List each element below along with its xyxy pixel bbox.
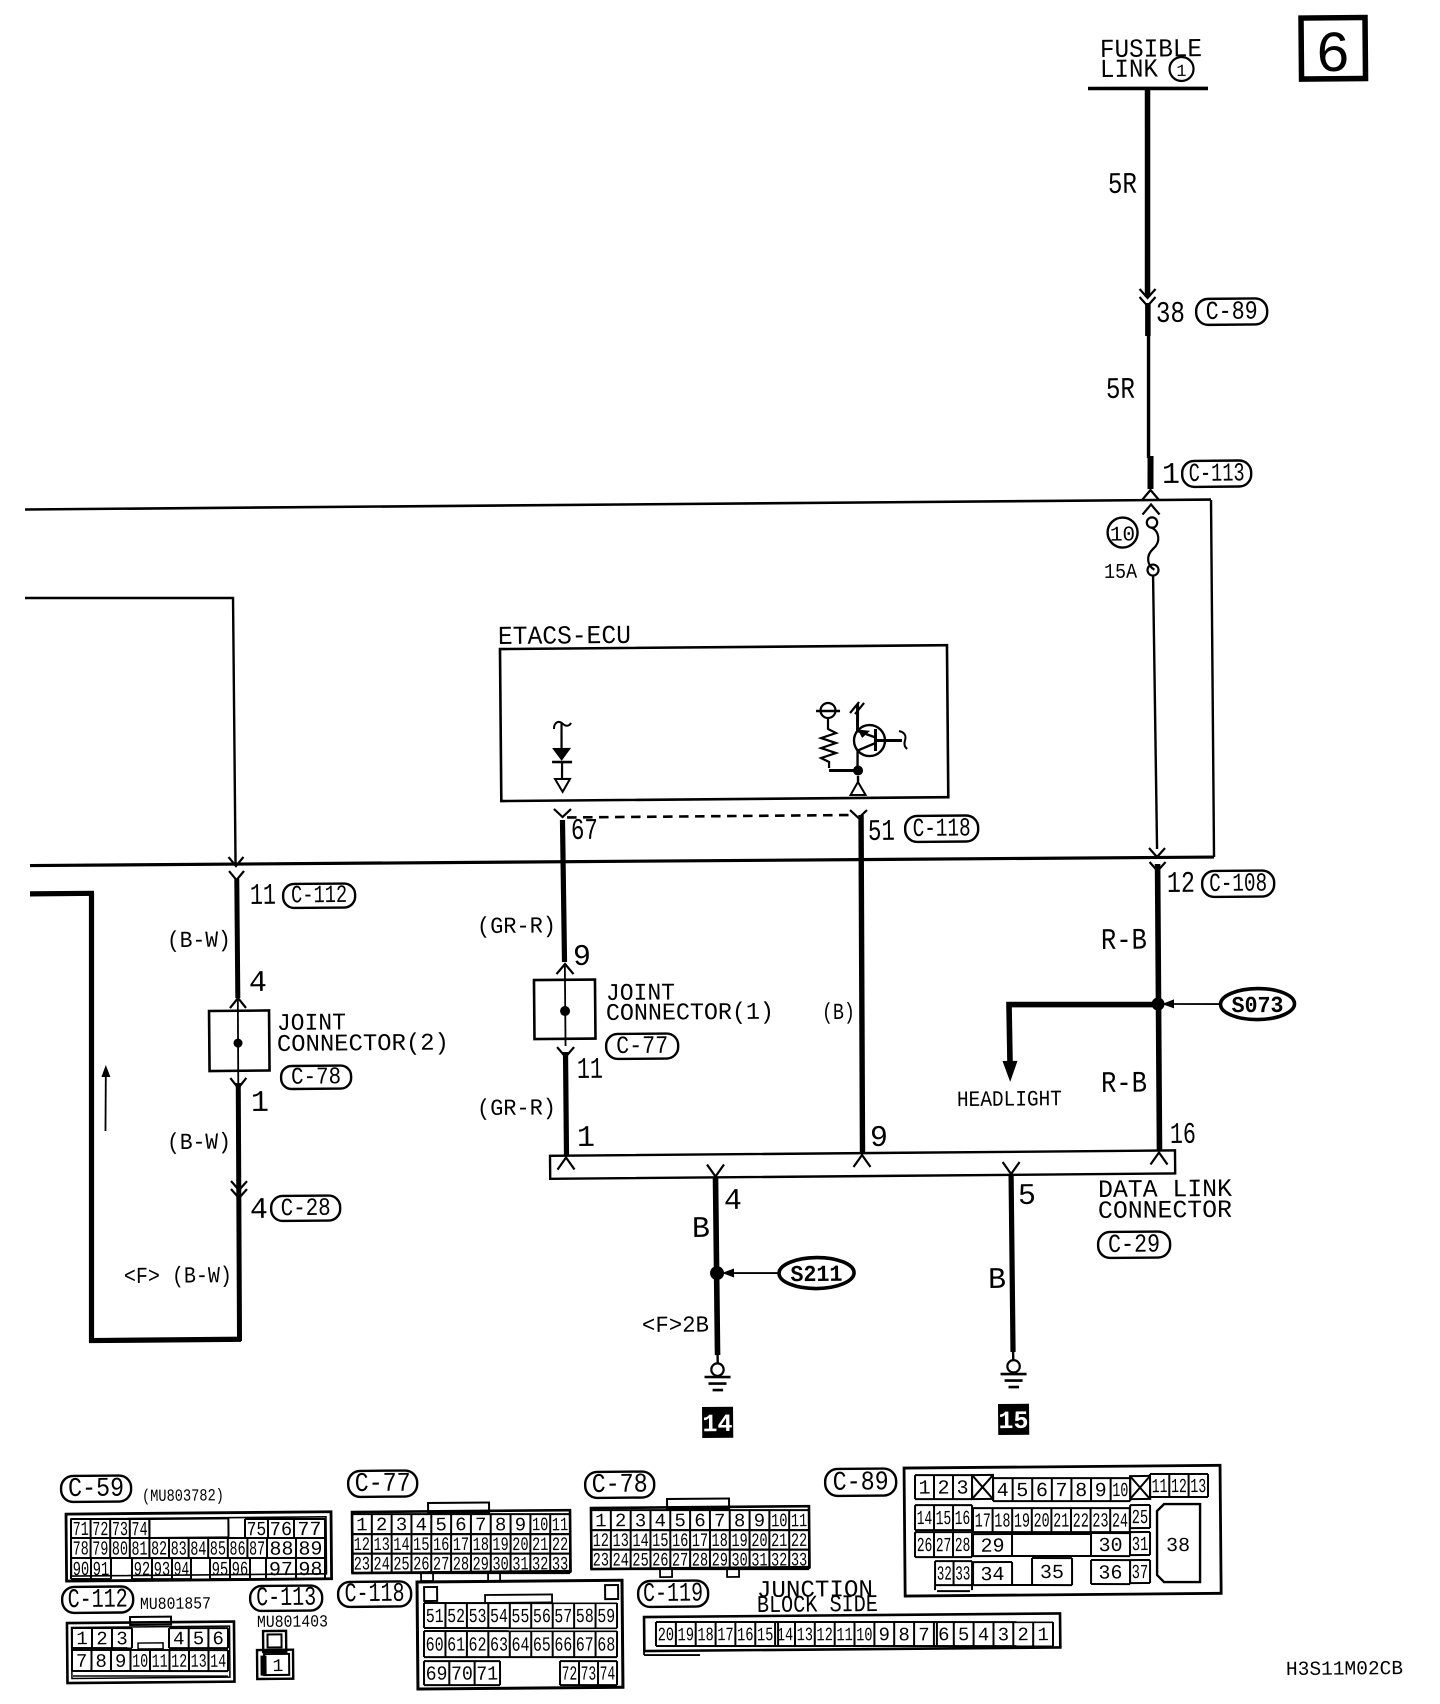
svg-text:11: 11 [552, 1514, 568, 1536]
label JOINT CONNECTOR(1) [606, 980, 774, 1028]
svg-text:(B-W): (B-W) [167, 928, 231, 955]
svg-text:2: 2 [376, 1514, 388, 1536]
connector arrow C-112 above rail [228, 857, 243, 866]
headlight arrowhead [1002, 1061, 1017, 1082]
svg-text:91: 91 [93, 1559, 110, 1582]
svg-text:11: 11 [1152, 1476, 1168, 1499]
svg-text:10: 10 [1110, 524, 1135, 547]
svg-text:67: 67 [576, 1634, 594, 1657]
svg-text:C-59: C-59 [68, 1475, 124, 1505]
connector C-113 ref [250, 1584, 322, 1615]
svg-text:15: 15 [757, 1624, 774, 1646]
svg-text:28: 28 [453, 1553, 469, 1575]
svg-text:14: 14 [210, 1651, 226, 1673]
ground 15 lead [1012, 1350, 1015, 1360]
wire R-B lower [1158, 1004, 1160, 1152]
svg-text:55: 55 [511, 1606, 529, 1629]
resistor to emitter wire [829, 769, 858, 773]
svg-text:C-77: C-77 [616, 1032, 668, 1061]
svg-text:26: 26 [917, 1535, 933, 1558]
transistor Q1 emitter diag [858, 743, 876, 751]
svg-text:20: 20 [1033, 1510, 1049, 1533]
svg-text:3: 3 [396, 1514, 408, 1536]
label GR-R lower [477, 1095, 556, 1122]
svg-text:31: 31 [751, 1549, 767, 1571]
svg-text:29: 29 [980, 1535, 1004, 1558]
svg-text:3: 3 [635, 1510, 647, 1532]
svg-text:C-28: C-28 [281, 1194, 331, 1223]
connector C-119 pinout [644, 1613, 1061, 1655]
transistor Q1 collector lead [856, 704, 860, 732]
fuse element squiggle [1148, 528, 1159, 570]
label 11 pin C-112 [250, 880, 276, 914]
connector C-89 pinout [904, 1465, 1221, 1596]
connector C-113 pinout [257, 1631, 293, 1679]
svg-text:33: 33 [955, 1563, 970, 1586]
label 5 dlc [1018, 1180, 1036, 1214]
svg-text:LINK: LINK [1100, 54, 1159, 85]
wire B-W upper [237, 879, 238, 998]
svg-text:94: 94 [174, 1559, 190, 1582]
svg-text:24: 24 [612, 1549, 628, 1571]
connector arrow junction block [1142, 504, 1159, 514]
svg-text:6: 6 [938, 1624, 950, 1646]
svg-text:80: 80 [112, 1539, 128, 1562]
svg-text:70: 70 [451, 1664, 473, 1687]
connector C-78 pinout [590, 1498, 809, 1578]
ETACS pin 51 triangle [850, 782, 865, 795]
wire F B-W loop [88, 892, 241, 1340]
svg-text:63: 63 [490, 1635, 508, 1658]
label 5R lower [1106, 374, 1135, 408]
svg-text:9: 9 [879, 1624, 891, 1646]
svg-text:92: 92 [134, 1559, 151, 1582]
svg-text:54: 54 [490, 1606, 508, 1629]
svg-text:5: 5 [193, 1628, 205, 1650]
connector C-89 ref [825, 1468, 896, 1499]
connector arrow C-28 lower [231, 1189, 247, 1198]
svg-text:8: 8 [95, 1651, 107, 1673]
S073 splice callout [1220, 988, 1294, 1020]
connector arrow joint2 bottom [230, 1078, 246, 1088]
label B-W lower [167, 1130, 231, 1157]
junction dot S073 [1151, 997, 1164, 1010]
svg-text:C-119: C-119 [643, 1580, 703, 1611]
svg-text:51: 51 [868, 816, 895, 850]
svg-text:66: 66 [554, 1635, 572, 1658]
svg-text:C-113: C-113 [256, 1584, 316, 1615]
svg-text:3: 3 [998, 1624, 1010, 1646]
svg-text:1: 1 [251, 1087, 269, 1121]
wire B etacs to dlc [860, 815, 864, 1155]
connector C-112 ref [62, 1585, 133, 1616]
wire dlc pin4 to ground [715, 1177, 717, 1355]
svg-text:11: 11 [250, 880, 276, 914]
svg-text:29: 29 [712, 1549, 728, 1571]
svg-text:65: 65 [533, 1635, 551, 1658]
svg-text:32: 32 [937, 1564, 952, 1587]
svg-text:C-118: C-118 [345, 1580, 405, 1611]
junction block side label [757, 1577, 878, 1620]
emitter output hook [899, 731, 907, 749]
ETACS internal supply circle [816, 703, 840, 718]
svg-text:27: 27 [433, 1553, 449, 1575]
svg-text:4: 4 [250, 1194, 268, 1228]
label 1 dlc pin [577, 1122, 595, 1156]
svg-text:53: 53 [469, 1606, 487, 1629]
svg-text:10: 10 [1112, 1480, 1128, 1503]
connector arrow C-113 pin1 [1142, 490, 1159, 500]
svg-text:72: 72 [562, 1664, 578, 1687]
svg-text:96: 96 [232, 1559, 249, 1582]
wire 5R upper segment [1146, 88, 1150, 297]
svg-text:2: 2 [1017, 1624, 1029, 1646]
svg-text:1: 1 [1037, 1624, 1049, 1646]
svg-text:35: 35 [1040, 1562, 1064, 1585]
svg-text:4: 4 [978, 1624, 990, 1646]
svg-text:24: 24 [373, 1553, 389, 1575]
connector C-118 pinout [417, 1580, 623, 1689]
svg-text:12: 12 [171, 1651, 187, 1673]
svg-text:73: 73 [581, 1664, 597, 1687]
connector ref C-89 inline [1196, 296, 1267, 327]
fuse terminal lower circle [1147, 565, 1158, 576]
svg-text:64: 64 [511, 1635, 529, 1658]
ETACS pin 67 triangle [555, 779, 570, 792]
svg-text:CONNECTOR: CONNECTOR [1098, 1196, 1232, 1226]
svg-text:CONNECTOR(1): CONNECTOR(1) [606, 1000, 774, 1028]
label 38 [1156, 298, 1185, 332]
svg-text:C-113: C-113 [1189, 458, 1245, 488]
label 4 joint conn2 [249, 967, 267, 1001]
connector ref C-113 inline [1182, 458, 1251, 489]
connector arrow C-28 upper [231, 1181, 247, 1190]
connector C-77 ref [348, 1470, 417, 1501]
svg-text:(B): (B) [822, 1000, 855, 1026]
dlc pin16 arrow [1150, 1152, 1167, 1164]
svg-text:18: 18 [994, 1511, 1010, 1534]
connector arrow joint2 top [230, 998, 246, 1008]
svg-text:R-B: R-B [1101, 925, 1147, 959]
svg-text:84: 84 [190, 1539, 206, 1562]
svg-text:5: 5 [1018, 1180, 1036, 1214]
wire segment into C-113 [1147, 456, 1154, 489]
svg-text:18: 18 [697, 1624, 713, 1646]
svg-text:11: 11 [152, 1651, 168, 1673]
svg-text:H3S11M02CB: H3S11M02CB [1286, 1658, 1403, 1682]
svg-text:71: 71 [476, 1664, 498, 1687]
connector arrow joint1 top [556, 964, 573, 974]
svg-text:37: 37 [1132, 1562, 1149, 1585]
branch wire to C-112 [25, 596, 236, 865]
label GR-R upper [477, 913, 556, 940]
label 12 pin C-108 [1167, 868, 1195, 902]
headlight branch wire [1009, 1003, 1158, 1062]
svg-text:1: 1 [272, 1657, 283, 1677]
svg-text:16: 16 [1170, 1119, 1196, 1153]
svg-text:C-108: C-108 [1209, 868, 1267, 899]
connector arrow C-118 pin51 [850, 810, 867, 818]
connector C-59 pinout [66, 1512, 332, 1584]
svg-text:C-78: C-78 [592, 1471, 648, 1501]
label 4 pin C-28 [250, 1194, 268, 1228]
label 5R upper [1108, 169, 1137, 203]
svg-text:12: 12 [1171, 1476, 1187, 1499]
drawing number H3S11M02CB [1286, 1658, 1403, 1682]
connector arrow C-108 below rail [1150, 862, 1166, 871]
svg-text:4: 4 [173, 1628, 185, 1650]
diode D1 top hook [554, 722, 571, 729]
S073 arrow [1162, 999, 1221, 1009]
svg-text:3: 3 [116, 1628, 128, 1650]
ETACS-ECU box [500, 645, 948, 801]
svg-text:1: 1 [76, 1628, 88, 1650]
fuse number circle 10 [1107, 517, 1137, 547]
label F 2B [642, 1312, 709, 1339]
fusible link label [1100, 34, 1203, 85]
label HEADLIGHT [957, 1087, 1062, 1113]
svg-text:51: 51 [426, 1606, 444, 1629]
joint connector 1 box [534, 980, 596, 1040]
ground 15 symbol [1000, 1360, 1026, 1387]
svg-text:23: 23 [1092, 1510, 1108, 1533]
wire dlc pin5 to ground [1011, 1174, 1013, 1352]
label (B) [822, 1000, 855, 1026]
svg-text:14: 14 [777, 1624, 794, 1646]
svg-text:6: 6 [1315, 24, 1350, 89]
connector arrow C-108 above rail [1149, 848, 1165, 857]
junction block top rail [25, 499, 1211, 510]
svg-text:60: 60 [426, 1634, 444, 1657]
svg-text:33: 33 [791, 1549, 807, 1571]
svg-text:10: 10 [856, 1624, 873, 1646]
svg-text:30: 30 [1098, 1535, 1122, 1558]
svg-text:4: 4 [249, 967, 267, 1001]
joint connector 1 dot [560, 1006, 570, 1016]
svg-text:15: 15 [998, 1407, 1028, 1436]
svg-text:38: 38 [1156, 298, 1185, 332]
junction block right edge [1211, 500, 1214, 857]
connector C-59 ref [61, 1475, 131, 1506]
connector ref C-28 inline [271, 1194, 340, 1224]
svg-text:62: 62 [469, 1635, 487, 1658]
connector C-112 part number [140, 1595, 211, 1615]
label 67 [571, 815, 598, 849]
svg-text:S073: S073 [1231, 993, 1283, 1019]
svg-text:12: 12 [816, 1624, 833, 1646]
svg-text:5R: 5R [1106, 374, 1135, 408]
svg-text:25: 25 [632, 1549, 648, 1571]
svg-text:10: 10 [771, 1510, 787, 1532]
svg-text:16: 16 [955, 1508, 971, 1531]
wire GR-R lower [566, 1052, 567, 1157]
svg-text:15: 15 [936, 1508, 952, 1531]
wire R-B upper [1157, 864, 1159, 1004]
wire fuse to C-108 [1153, 576, 1157, 850]
connector C-78 ref [585, 1470, 654, 1501]
svg-text:(GR-R): (GR-R) [477, 1095, 556, 1122]
svg-text:4: 4 [724, 1185, 742, 1219]
svg-text:BLOCK SIDE: BLOCK SIDE [757, 1592, 878, 1620]
svg-text:13: 13 [191, 1651, 207, 1673]
svg-text:C-77: C-77 [355, 1470, 411, 1500]
connector arrow joint1 bottom [557, 1047, 574, 1057]
svg-text:24: 24 [1112, 1511, 1128, 1534]
svg-text:10: 10 [532, 1514, 548, 1536]
svg-text:4: 4 [997, 1480, 1009, 1503]
label B-W upper [167, 928, 231, 955]
ground 14 symbol [704, 1363, 730, 1390]
dashed link pin67-pin51 [567, 815, 853, 817]
svg-text:C-89: C-89 [833, 1468, 889, 1498]
label 1 below joint2 [251, 1087, 269, 1121]
connector C-119 ref [638, 1579, 708, 1610]
connector ref C-77 inline [606, 1032, 678, 1062]
svg-text:7: 7 [76, 1651, 88, 1673]
svg-text:38: 38 [1166, 1535, 1190, 1558]
dlc pin5 arrow [1003, 1162, 1020, 1174]
S211 arrow [722, 1268, 779, 1277]
svg-text:27: 27 [672, 1549, 688, 1571]
svg-text:17: 17 [717, 1624, 734, 1646]
svg-text:6: 6 [1036, 1480, 1048, 1503]
label 1 pin C-113 [1162, 459, 1180, 493]
svg-text:2: 2 [96, 1628, 108, 1650]
label DATA LINK CONNECTOR [1098, 1175, 1233, 1226]
svg-text:31: 31 [512, 1553, 528, 1575]
svg-text:16: 16 [737, 1624, 754, 1646]
diode D1 lead upper [560, 723, 563, 749]
svg-text:31: 31 [1132, 1534, 1149, 1557]
svg-text:25: 25 [393, 1553, 409, 1575]
connector ref C-108 inline [1202, 868, 1274, 899]
svg-text:2: 2 [615, 1510, 627, 1532]
svg-text:15A: 15A [1104, 562, 1138, 585]
svg-text:36: 36 [1098, 1562, 1122, 1585]
svg-text:12: 12 [1167, 868, 1195, 902]
svg-text:<F>2B: <F>2B [642, 1312, 709, 1339]
page number box 6 [1301, 17, 1366, 89]
joint connector 2 box [209, 1010, 270, 1071]
label 11 joint conn [577, 1054, 603, 1088]
svg-text:9: 9 [754, 1510, 766, 1532]
svg-text:CONNECTOR(2): CONNECTOR(2) [277, 1031, 449, 1059]
fusible link circled 1 [1169, 57, 1193, 82]
svg-text:6: 6 [212, 1628, 224, 1650]
svg-text:32: 32 [532, 1553, 548, 1575]
svg-text:28: 28 [692, 1549, 708, 1571]
joint connector 1 center line [564, 966, 567, 1046]
svg-text:97: 97 [269, 1559, 293, 1582]
svg-text:(MU803782): (MU803782) [142, 1487, 224, 1507]
svg-text:13: 13 [797, 1624, 813, 1646]
label R-B lower [1101, 1068, 1147, 1102]
svg-text:11: 11 [577, 1054, 603, 1088]
S211 junction dot [710, 1266, 724, 1280]
label 9 dlc pin [870, 1122, 888, 1156]
label JOINT CONNECTOR(2) [277, 1010, 449, 1059]
svg-text:1: 1 [1162, 459, 1180, 493]
svg-text:10: 10 [132, 1651, 148, 1673]
connector ref C-29 inline [1098, 1229, 1170, 1260]
diode D1 lead lower [561, 762, 564, 780]
svg-text:19: 19 [678, 1624, 695, 1646]
connector ref C-78 inline [281, 1064, 351, 1092]
label R-B upper [1101, 925, 1147, 959]
ground 14 lead [716, 1352, 719, 1363]
svg-text:95: 95 [212, 1559, 229, 1582]
fusible link bus bar [1088, 87, 1208, 89]
svg-text:(GR-R): (GR-R) [477, 913, 556, 940]
diode D1 [552, 748, 572, 762]
svg-text:22: 22 [1073, 1511, 1089, 1534]
transistor Q1 circle [854, 725, 885, 756]
svg-text:29: 29 [473, 1553, 489, 1575]
resistor R1 [821, 718, 837, 768]
svg-text:87: 87 [249, 1539, 265, 1562]
svg-text:57: 57 [554, 1606, 572, 1629]
connector C-59 part number [142, 1487, 224, 1507]
ETACS-ECU label [498, 621, 631, 652]
svg-text:C-118: C-118 [913, 813, 971, 844]
transistor Q1 base bar [874, 729, 877, 751]
svg-text:7: 7 [918, 1624, 930, 1646]
connector arrow C-118 pin67 [554, 809, 571, 817]
svg-text:14: 14 [917, 1508, 933, 1531]
svg-text:23: 23 [354, 1553, 370, 1575]
wire 5R lower segment [1147, 334, 1149, 458]
fuse terminal upper circle [1147, 517, 1157, 527]
label B right [988, 1264, 1006, 1298]
connector arrow C-112 below rail [229, 871, 244, 880]
svg-text:21: 21 [1053, 1511, 1069, 1534]
svg-text:17: 17 [975, 1511, 991, 1534]
svg-text:1: 1 [1176, 63, 1186, 82]
fuse rating 15A [1104, 562, 1138, 585]
svg-text:9: 9 [1095, 1480, 1107, 1503]
transistor Q1 hash marks [850, 702, 864, 714]
svg-text:6: 6 [455, 1514, 467, 1536]
wire F B-W stub [30, 891, 94, 897]
label 9 joint conn [573, 941, 591, 975]
label 4 dlc [724, 1185, 742, 1219]
svg-text:C-112: C-112 [291, 881, 347, 910]
svg-text:B: B [692, 1213, 710, 1247]
svg-text:19: 19 [1014, 1511, 1030, 1534]
svg-text:52: 52 [447, 1606, 465, 1629]
ETACS pin 51 wire [857, 776, 859, 782]
svg-text:33: 33 [552, 1554, 568, 1576]
svg-text:<F> (B-W): <F> (B-W) [124, 1263, 232, 1290]
svg-text:HEADLIGHT: HEADLIGHT [957, 1087, 1062, 1113]
svg-text:59: 59 [597, 1606, 615, 1629]
dlc pin1 arrow [557, 1157, 574, 1169]
svg-text:32: 32 [771, 1549, 787, 1571]
svg-text:(B-W): (B-W) [167, 1130, 231, 1157]
svg-text:MU801857: MU801857 [140, 1595, 211, 1615]
svg-text:34: 34 [980, 1564, 1004, 1587]
svg-text:69: 69 [426, 1664, 448, 1687]
svg-text:93: 93 [154, 1559, 171, 1582]
svg-text:56: 56 [533, 1606, 551, 1629]
svg-text:3: 3 [956, 1478, 968, 1501]
svg-text:R-B: R-B [1101, 1068, 1147, 1102]
svg-text:58: 58 [576, 1606, 594, 1629]
svg-text:28: 28 [955, 1535, 971, 1558]
joint connector 2 center line [238, 1000, 239, 1084]
svg-text:9: 9 [115, 1651, 127, 1673]
connector C-112 pinout [67, 1616, 235, 1683]
